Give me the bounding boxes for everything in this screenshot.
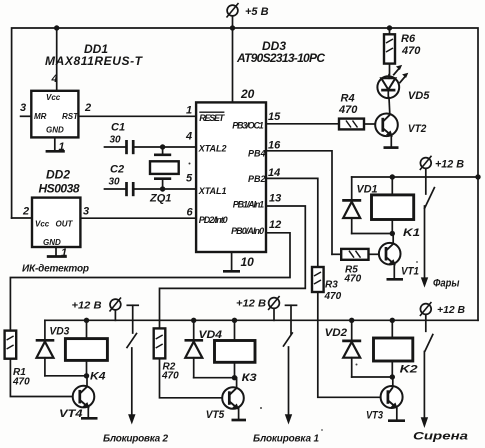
resistor R3 470 <box>312 267 342 302</box>
wire: VT3 emitter to ground <box>396 407 398 420</box>
relay K1 <box>372 177 421 239</box>
IC DD2 HS0038 (IR detector) <box>32 168 80 248</box>
svg-text:K4: K4 <box>90 371 106 383</box>
svg-text:10: 10 <box>241 255 255 269</box>
svg-text:RESET: RESET <box>199 113 226 123</box>
switch: K1 contact to headlights <box>421 177 460 290</box>
wire: DD2 pin2 Vcc from +5V line <box>12 217 32 219</box>
svg-text:DD2: DD2 <box>46 168 70 182</box>
node: dot C2/XTAL1 <box>160 186 165 191</box>
svg-text:PB4: PB4 <box>248 148 266 158</box>
svg-text:470: 470 <box>338 104 358 116</box>
svg-text:Vcc: Vcc <box>35 220 50 229</box>
node: dot K3 coil bottom <box>232 375 237 380</box>
svg-text:Сирена: Сирена <box>413 431 468 443</box>
wire: PB1 pin13 to R2 <box>160 206 306 328</box>
pin 1 RESET label <box>186 105 226 124</box>
svg-text:1: 1 <box>186 105 192 117</box>
node: dot K3 coil top <box>232 318 237 323</box>
svg-text:C2: C2 <box>110 164 124 176</box>
svg-text:C1: C1 <box>111 122 125 134</box>
node: dot K1 coil bottom <box>390 231 395 236</box>
svg-text:R3: R3 <box>325 280 338 291</box>
resistor R5 470 <box>332 249 379 285</box>
node: dot VD2 top <box>349 318 354 323</box>
wire: DD3 pin20 Vcc stem <box>232 28 234 102</box>
svg-text:1: 1 <box>59 141 65 153</box>
svg-text:30: 30 <box>109 177 121 188</box>
wire: PB0 pin12 to R1 <box>10 233 290 331</box>
svg-text:16: 16 <box>268 140 281 152</box>
terminal +12V (left) <box>72 298 122 321</box>
svg-text:2: 2 <box>22 206 29 218</box>
node: dot R6 on rail <box>387 25 392 30</box>
capacitor C2 30 <box>105 164 197 197</box>
relay K4 <box>65 320 107 382</box>
wire: VT4 emitter to ground <box>87 407 89 417</box>
wire: DD1 pin1 GND stem <box>54 137 56 151</box>
node: dot K4 coil top <box>84 318 89 323</box>
wire: DD3 pin10 GND stem <box>231 252 233 271</box>
ground under VT2 <box>384 146 399 149</box>
LED VD5 <box>377 65 430 102</box>
ground under VT4 <box>81 417 98 420</box>
ground under VT3 <box>388 419 405 422</box>
svg-text:VD5: VD5 <box>408 90 430 102</box>
wire: DD2 pin1 GND stem <box>55 247 57 256</box>
node: dot K2 coil top <box>390 318 395 323</box>
pin 12 PB0/AIn0 label <box>231 219 281 236</box>
ground under DD2 <box>47 255 67 258</box>
resistor R1 470 <box>5 331 31 388</box>
svg-text:ZQ1: ZQ1 <box>149 193 171 205</box>
resistor R2 470 <box>154 328 179 381</box>
transistor VT2 <box>375 114 426 137</box>
svg-text:AT90S2313-10PC: AT90S2313-10PC <box>236 51 325 65</box>
svg-text:PB0/AIn0: PB0/AIn0 <box>231 226 264 236</box>
svg-text:R6: R6 <box>401 33 416 45</box>
IC DD3 AT90S2313-10PC <box>196 39 325 252</box>
terminal +5V <box>227 3 269 28</box>
ground under DD3 <box>223 270 240 273</box>
svg-text:Блокировка 1: Блокировка 1 <box>253 434 319 445</box>
svg-text:15: 15 <box>268 111 281 123</box>
crystal ZQ1 <box>149 147 179 205</box>
svg-text:VT1: VT1 <box>401 266 419 278</box>
svg-text:HS0038: HS0038 <box>39 182 80 196</box>
switch: K4 contact (blocking 2) <box>103 305 168 444</box>
pin 4 XTAL2 label <box>185 131 227 154</box>
svg-text:+12 В: +12 В <box>435 159 464 171</box>
scan speckles <box>189 163 191 165</box>
svg-text:+12 В: +12 В <box>72 301 102 312</box>
svg-text:Фары: Фары <box>433 278 460 290</box>
svg-text:3: 3 <box>20 102 26 114</box>
svg-text:OUT: OUT <box>56 220 74 229</box>
svg-text:4: 4 <box>51 73 58 85</box>
wire: VT1 emitter to ground <box>393 264 395 278</box>
svg-text:VT4: VT4 <box>59 408 83 420</box>
svg-text:GND: GND <box>43 238 61 247</box>
ground under VT5 <box>232 419 247 422</box>
wire: +12V bottom rail <box>45 319 478 321</box>
svg-text:30: 30 <box>110 135 122 146</box>
switch: K2 contact (siren) <box>413 335 468 443</box>
wire: K1 +12V feed rail <box>352 176 478 178</box>
resistor R6 470 <box>384 28 421 75</box>
ground under DD1 <box>46 150 65 153</box>
pin 5 XTAL1 label <box>186 173 227 196</box>
node: dot VD4 top <box>191 318 196 323</box>
diode VD1 <box>342 177 392 234</box>
svg-text:470: 470 <box>344 274 362 285</box>
svg-text:VT2: VT2 <box>408 123 427 135</box>
svg-text:PB1/AIn1: PB1/AIn1 <box>233 199 264 209</box>
node: dot K1 coil top <box>390 174 395 179</box>
svg-text:GND: GND <box>46 126 64 135</box>
relay K3 <box>215 320 257 384</box>
wire: R2 to VT5 base <box>160 358 223 397</box>
svg-text:13: 13 <box>269 193 281 205</box>
wire: DD1 pin4 Vcc stem <box>56 28 58 91</box>
wire: DD2 pin3 OUT to DD3 PD2 <box>80 217 196 219</box>
svg-text:K2: K2 <box>400 364 418 376</box>
node: dot C1/XTAL2 <box>160 144 165 149</box>
terminal +12V (middle) <box>236 296 280 320</box>
svg-text:12: 12 <box>269 219 281 231</box>
svg-text:MAX811REUS-T: MAX811REUS-T <box>45 54 144 68</box>
svg-text:VT3: VT3 <box>366 410 383 422</box>
svg-text:VD3: VD3 <box>49 326 69 338</box>
svg-text:K1: K1 <box>403 227 420 239</box>
svg-text:2: 2 <box>84 102 91 114</box>
wire: R1 to VT4 base <box>10 359 72 397</box>
resistor R4 470 <box>266 93 375 130</box>
pin 13 PB1/AIn1 label <box>233 193 281 210</box>
svg-text:4: 4 <box>185 131 192 143</box>
IC DD1 MAX811REUS-T <box>31 42 143 137</box>
capacitor C1 30 <box>105 122 197 155</box>
wire: +5V top rail <box>12 28 478 320</box>
svg-text:PB2: PB2 <box>248 174 266 184</box>
svg-text:+5 В: +5 В <box>245 6 269 18</box>
svg-text:PB3/OC1: PB3/OC1 <box>232 121 264 131</box>
svg-text:470: 470 <box>161 371 179 382</box>
relay K2 <box>374 320 418 377</box>
pin 16 PB4 label <box>248 140 281 159</box>
svg-text:3: 3 <box>83 206 89 218</box>
svg-text:XTAL1: XTAL1 <box>198 186 227 196</box>
svg-text:6: 6 <box>187 207 194 219</box>
svg-text:ИК-детектор: ИК-детектор <box>22 264 89 275</box>
svg-text:1: 1 <box>61 247 67 259</box>
svg-text:MR: MR <box>34 112 47 121</box>
svg-text:470: 470 <box>324 291 342 302</box>
svg-text:RST: RST <box>62 112 79 121</box>
svg-text:XTAL2: XTAL2 <box>198 143 227 153</box>
svg-text:5: 5 <box>186 173 193 185</box>
switch: K3 contact (blocking 1) <box>253 305 319 444</box>
wire: PB4 pin16 to R5 <box>266 151 332 255</box>
svg-text:Блокировка 2: Блокировка 2 <box>103 434 168 445</box>
diode VD4 <box>185 320 235 377</box>
svg-text:VD2: VD2 <box>325 327 348 339</box>
pin 14 PB2 label <box>248 167 280 184</box>
node: dot +5V on rail <box>230 25 235 30</box>
svg-text:+12 В: +12 В <box>437 305 465 316</box>
node: dot DD1 Vcc on rail <box>54 25 59 30</box>
terminal +12V (right) <box>420 302 465 331</box>
wire: R3 to VT3 base <box>318 292 381 397</box>
transistor VT3 <box>366 377 403 422</box>
pin 15 PB3/OC1 label <box>232 111 281 131</box>
wire: PB2 pin14 to R3 <box>266 178 318 267</box>
diode VD3 <box>36 320 87 376</box>
svg-text:PD2/Int0: PD2/Int0 <box>199 215 228 225</box>
wire: VD5 to VT2 collector <box>388 98 391 115</box>
node: dot K2 coil bottom <box>390 374 395 379</box>
svg-text:Vcc: Vcc <box>46 93 61 102</box>
svg-text:VT5: VT5 <box>206 409 225 421</box>
terminal +12V (headlights) <box>420 156 464 177</box>
svg-text:20: 20 <box>240 87 255 101</box>
ground under VT1 <box>387 278 404 281</box>
svg-text:470: 470 <box>12 377 30 388</box>
wire: VT2 emitter to ground <box>390 135 392 146</box>
transistor VT1 <box>379 234 419 278</box>
svg-text:R4: R4 <box>341 93 355 105</box>
node: dot K4 coil bottom <box>84 373 89 378</box>
svg-text:470: 470 <box>401 45 421 57</box>
wire: DD1 pin2 RST to DD3 RESET <box>78 115 196 117</box>
diode VD2 <box>325 320 393 377</box>
transistor VT5 <box>206 378 244 421</box>
wire: VT5 emitter to ground <box>238 408 240 419</box>
transistor VT4 <box>59 376 94 420</box>
svg-text:+12 В: +12 В <box>236 299 266 310</box>
pin 6 PD2/Int0 label <box>187 207 228 226</box>
node: dot K1 rail right <box>475 174 480 179</box>
svg-text:14: 14 <box>268 167 280 179</box>
wire: DD1 pin3 MR stub <box>21 115 32 117</box>
svg-text:К3: К3 <box>242 372 257 384</box>
